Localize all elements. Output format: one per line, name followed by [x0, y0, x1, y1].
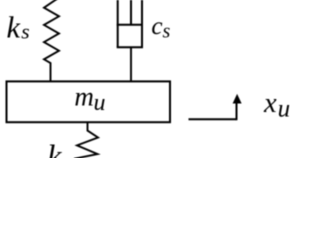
reference axis x_u horizontal wire — [189, 118, 237, 120]
damper C_s piston plate — [117, 24, 143, 26]
reference axis x_u vertical shaft — [236, 103, 238, 121]
label k (lower spring) — [47, 137, 62, 173]
svg-text:c: c — [151, 13, 162, 40]
wire damper to mass — [130, 47, 132, 81]
arrowhead x_u — [233, 94, 242, 104]
svg-text:s: s — [163, 21, 171, 43]
svg-text:s: s — [21, 20, 29, 44]
label k_s — [7, 11, 30, 45]
damper C_s cylinder right wall — [141, 0, 143, 47]
spring k_t (lower) — [74, 123, 98, 159]
svg-text:m: m — [74, 81, 94, 111]
svg-text:u: u — [278, 95, 290, 122]
svg-text:k: k — [47, 137, 62, 158]
damper C_s cylinder left wall — [117, 0, 119, 47]
svg-text:x: x — [263, 88, 277, 119]
svg-text:u: u — [94, 90, 106, 116]
label c_s — [151, 13, 170, 42]
mass m_u — [7, 81, 171, 122]
damper C_s cylinder bottom — [117, 46, 143, 48]
spring k_s — [44, 0, 59, 81]
damper C_s piston rod — [130, 0, 132, 25]
label x_u — [263, 88, 290, 122]
label m_u — [74, 81, 105, 116]
svg-text:k: k — [7, 11, 21, 45]
